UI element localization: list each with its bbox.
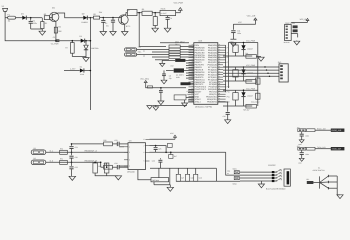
ground	[83, 58, 89, 62]
diode D6	[243, 67, 245, 69]
ground	[100, 32, 107, 36]
resistor R36	[168, 143, 173, 147]
svg-text:OPA2340: OPA2340	[127, 171, 135, 174]
diode D5	[243, 43, 245, 46]
isp arrows	[275, 170, 281, 172]
svg-text:78L05: 78L05	[160, 7, 165, 10]
ground symbol GND	[230, 38, 236, 40]
svg-text:2: 2	[129, 151, 130, 154]
wire	[152, 51, 169, 53]
wire row3 bottom	[223, 105, 252, 107]
wire	[46, 161, 101, 163]
connector X4 input plug	[31, 160, 46, 165]
crystal Y2 block	[174, 68, 184, 72]
ground	[152, 28, 159, 32]
net tag 2	[234, 177, 239, 180]
resistor R37 small	[169, 155, 173, 159]
svg-text:3: 3	[129, 159, 130, 162]
crystal Y3 block	[181, 82, 191, 85]
wire	[100, 17, 119, 19]
svg-text:C22: C22	[75, 166, 78, 169]
svg-text:47: 47	[191, 78, 193, 80]
power flag	[174, 137, 176, 139]
resistor R1	[41, 22, 44, 29]
svg-text:A1: A1	[143, 49, 145, 52]
wire ch2 jog	[100, 162, 102, 167]
svg-text:62: 62	[219, 49, 221, 51]
svg-text:C5: C5	[53, 36, 55, 39]
resistor R30	[60, 150, 68, 154]
ground	[161, 80, 167, 84]
wire row3 top	[223, 89, 258, 91]
svg-text:PD3(INT3): PD3(INT3)	[207, 100, 217, 103]
diode D4 row	[64, 70, 80, 72]
svg-text:56: 56	[219, 64, 221, 66]
svg-text:D4: D4	[80, 65, 82, 68]
wire pin7	[150, 146, 167, 153]
svg-text:59: 59	[219, 56, 221, 58]
svg-text:52: 52	[219, 73, 221, 75]
svg-text:X3: X3	[33, 147, 35, 150]
ground	[299, 158, 304, 161]
resistor R25	[246, 104, 257, 108]
capacitor C26	[159, 158, 161, 159]
resistor R21	[246, 55, 257, 59]
capacitor	[301, 150, 303, 152]
svg-text:R1: R1	[45, 22, 47, 25]
wire zener gnd	[72, 53, 86, 56]
node VIN vertical	[90, 17, 92, 19]
svg-text:C25: C25	[158, 148, 161, 151]
wire	[84, 70, 90, 72]
resistor R7 vertical	[70, 43, 74, 54]
svg-text:A2: A2	[143, 54, 145, 57]
ground	[122, 32, 129, 36]
svg-text:R7: R7	[65, 47, 67, 50]
wire	[315, 148, 331, 150]
ground	[149, 104, 151, 106]
ground	[41, 29, 43, 31]
wire emitter down	[55, 21, 57, 40]
svg-text:58: 58	[219, 59, 221, 61]
zener diode Z1	[84, 45, 88, 50]
wire	[16, 17, 23, 19]
svg-text:R3: R3	[93, 13, 95, 16]
svg-text:R2: R2	[44, 13, 46, 16]
diode D3 on rail	[81, 39, 85, 43]
capacitor C5 on rail	[55, 39, 59, 41]
svg-text:SV2/ISP: SV2/ISP	[268, 164, 276, 167]
svg-text:SV1: SV1	[278, 61, 282, 64]
svg-text:R30: R30	[60, 148, 63, 151]
svg-text:C10: C10	[223, 115, 226, 118]
wire	[152, 56, 169, 58]
crystal Y1 block	[175, 59, 185, 62]
vertical tie	[257, 43, 259, 107]
wire	[87, 17, 90, 19]
svg-text:41: 41	[191, 64, 193, 66]
wire mcu bottom rail	[153, 104, 187, 106]
ground	[299, 140, 304, 143]
wire row2 bottom	[223, 80, 252, 82]
svg-text:C4: C4	[170, 17, 172, 20]
wire	[336, 176, 338, 195]
fuse F1	[8, 16, 16, 19]
svg-text:R32: R32	[103, 139, 106, 142]
resistor R24	[233, 93, 238, 100]
svg-text:63: 63	[219, 47, 221, 49]
svg-text:64: 64	[219, 44, 221, 46]
resistor R6 vertical	[153, 17, 157, 26]
resistor R34 vertical	[93, 163, 98, 173]
svg-text:C26: C26	[152, 160, 155, 163]
capacitor C3 electrolytic	[112, 17, 114, 19]
connector J1 power jack	[3, 8, 8, 11]
svg-text:43: 43	[191, 69, 193, 71]
wire	[137, 49, 169, 51]
wire collector	[58, 13, 84, 18]
resistor R32	[104, 142, 113, 146]
svg-text:42: 42	[219, 98, 221, 100]
connector X3 input plug	[31, 150, 46, 155]
capacitor C10 under mcu	[226, 112, 230, 114]
svg-text:1N4007: 1N4007	[247, 94, 253, 97]
svg-text:55: 55	[191, 98, 193, 100]
bus wires right of mcu	[225, 45, 227, 92]
wire gnd rail	[95, 173, 118, 176]
capacitor columns C27 C28 C29	[177, 168, 179, 174]
ground	[184, 100, 186, 103]
svg-text:MEGA64-A TQFP64: MEGA64-A TQFP64	[195, 106, 212, 109]
svg-text:C21: C21	[75, 146, 78, 149]
svg-text:49: 49	[191, 83, 193, 85]
inductor L1	[147, 86, 152, 88]
svg-text:51: 51	[191, 88, 193, 90]
resistor R5	[142, 11, 152, 15]
svg-text:R10: R10	[175, 43, 178, 46]
svg-text:40: 40	[191, 61, 193, 63]
svg-text:53: 53	[219, 71, 221, 73]
resistor R23	[246, 80, 257, 84]
svg-text:TXD0_JAR: TXD0_JAR	[317, 146, 326, 149]
svg-text:SCL: SCL	[138, 46, 141, 49]
svg-text:6: 6	[143, 151, 144, 154]
svg-text:X4: X4	[33, 157, 35, 160]
net tag X	[307, 181, 314, 184]
resistor	[307, 147, 315, 150]
resistor R35 vertical	[104, 163, 109, 173]
ground	[164, 28, 171, 32]
resistor R2 series	[44, 16, 49, 20]
wire out to isp	[226, 152, 278, 175]
svg-text:C23: C23	[114, 139, 117, 142]
svg-text:R5: R5	[142, 8, 144, 11]
svg-text:57: 57	[219, 61, 221, 63]
resistor R4 on emitter line	[54, 27, 57, 33]
ground	[337, 195, 343, 199]
svg-text:36: 36	[191, 51, 193, 53]
resistor R31	[60, 160, 68, 164]
capacitor C24	[116, 165, 118, 169]
wire	[90, 17, 93, 19]
svg-text:VCC_JAR: VCC_JAR	[247, 15, 256, 18]
svg-text:VCC_MCU: VCC_MCU	[140, 78, 150, 81]
svg-text:U2A: U2A	[198, 40, 203, 43]
svg-text:53: 53	[191, 93, 193, 95]
feedback wire ch2	[101, 166, 104, 168]
wire	[160, 42, 189, 44]
svg-text:C1: C1	[33, 20, 35, 23]
resistor R33	[104, 165, 113, 169]
resistor R27 vertical	[256, 93, 260, 99]
wire rail to isp	[216, 180, 240, 182]
wire bottom rail to isp	[176, 180, 216, 182]
wire	[291, 21, 307, 23]
svg-text:48: 48	[191, 81, 193, 83]
svg-text:VCC_MCU: VCC_MCU	[251, 101, 260, 104]
ground small	[161, 60, 163, 63]
connector plug P4	[125, 53, 137, 56]
wire	[146, 85, 186, 88]
svg-text:XT2: XT2	[170, 64, 173, 67]
capacitor C4	[166, 16, 170, 18]
svg-text:44: 44	[219, 93, 221, 95]
wire gnd pin	[167, 16, 169, 18]
wire	[233, 22, 255, 24]
regulator U1 box	[127, 10, 137, 16]
svg-text:33: 33	[191, 44, 193, 46]
wire	[152, 12, 160, 14]
capacitor C23	[116, 142, 118, 146]
svg-text:46: 46	[191, 76, 193, 78]
wire	[137, 12, 142, 14]
net tag 1	[234, 171, 239, 174]
capacitor C1	[30, 18, 32, 21]
svg-text:1N4004: 1N4004	[81, 21, 87, 24]
mcu U2 left pins	[189, 44, 194, 46]
svg-text:39: 39	[191, 59, 193, 61]
connector SV1	[279, 64, 288, 82]
crystal X5 box	[151, 178, 169, 182]
wire	[315, 129, 331, 131]
capacitor C20 between rails	[71, 152, 73, 154]
feedback wire ch1	[72, 143, 104, 145]
isp pads	[272, 171, 275, 173]
svg-text:44: 44	[191, 71, 193, 73]
svg-text:51: 51	[219, 76, 221, 78]
wire	[291, 33, 298, 35]
svg-text:4: 4	[129, 165, 130, 168]
isp connector body SV2	[284, 169, 290, 186]
wire	[5, 11, 90, 40]
resonator box with caps	[174, 95, 186, 100]
svg-text:R34: R34	[98, 165, 101, 168]
wire	[218, 102, 228, 112]
wire	[112, 143, 117, 145]
capacitor C21 above	[71, 144, 73, 146]
gnd rail	[150, 167, 216, 169]
svg-text:7: 7	[143, 144, 144, 147]
ground	[260, 181, 262, 184]
svg-text:45: 45	[191, 73, 193, 75]
opamp U3 body	[128, 143, 145, 170]
svg-text:1N4733A: 1N4733A	[91, 47, 99, 50]
wire	[176, 12, 181, 14]
svg-text:34: 34	[191, 47, 193, 49]
svg-text:48: 48	[219, 83, 221, 85]
svg-text:P21: P21	[227, 96, 230, 99]
svg-text:60: 60	[219, 54, 221, 56]
capacitor	[301, 132, 303, 134]
svg-text:55: 55	[219, 66, 221, 68]
ground	[257, 55, 259, 57]
svg-text:R25 4k7: R25 4k7	[243, 109, 249, 112]
transistor Q2	[119, 15, 129, 25]
svg-text:D3: D3	[79, 35, 81, 38]
resistor R20	[233, 45, 238, 52]
wire u3 pin wires	[119, 146, 124, 148]
svg-text:B772: B772	[126, 25, 130, 28]
ground	[110, 32, 116, 36]
svg-text:RXD0_JAR: RXD0_JAR	[332, 129, 342, 132]
svg-text:RXD0_JAR: RXD0_JAR	[317, 127, 326, 130]
capacitor C9	[160, 87, 162, 89]
isp wire 1	[240, 171, 277, 173]
svg-text:45: 45	[219, 91, 221, 93]
svg-text:CODE SWITCH: CODE SWITCH	[313, 169, 326, 172]
svg-text:READOUT_A: READOUT_A	[85, 149, 98, 152]
wire	[112, 166, 117, 168]
svg-text:R4: R4	[58, 25, 60, 28]
resistor	[307, 129, 315, 132]
wire	[31, 28, 43, 30]
jumper links	[293, 25, 298, 28]
svg-text:22p: 22p	[169, 77, 172, 80]
svg-text:61: 61	[219, 51, 221, 53]
node vertical to MCU area	[138, 12, 140, 14]
capacitor C22 below	[71, 162, 73, 166]
resistor R3	[94, 16, 100, 19]
connector plug P3	[125, 48, 137, 51]
diode D2	[83, 16, 87, 20]
svg-text:VC_PWR: VC_PWR	[51, 43, 59, 46]
mcu U2 body	[194, 43, 218, 105]
resistor network R10-R14 column	[169, 45, 180, 48]
svg-text:42: 42	[191, 66, 193, 68]
wire	[26, 17, 42, 19]
switch pole	[319, 176, 321, 188]
svg-text:47: 47	[219, 86, 221, 88]
svg-text:50: 50	[219, 78, 221, 80]
ground	[115, 176, 122, 180]
svg-text:VCC_PWR: VCC_PWR	[174, 2, 184, 5]
regulator U1 78L05 box	[160, 10, 176, 15]
svg-text:470u: 470u	[33, 22, 37, 25]
ground	[296, 40, 298, 43]
capacitor C8	[163, 70, 165, 73]
svg-text:VCC_PWR: VCC_PWR	[246, 87, 256, 90]
svg-text:50: 50	[191, 86, 193, 88]
transistor Q1	[50, 12, 59, 21]
wire row2 top	[223, 66, 258, 68]
svg-text:P19: P19	[227, 91, 230, 94]
wire	[5, 17, 8, 19]
capacitor C2	[103, 17, 105, 19]
svg-text:C20: C20	[75, 156, 78, 159]
diode D1	[22, 16, 26, 20]
wire	[137, 54, 169, 56]
wire	[313, 182, 319, 184]
svg-text:8: 8	[143, 138, 144, 141]
ground	[155, 105, 157, 106]
svg-text:MLW10: MLW10	[284, 41, 290, 44]
wire	[155, 59, 169, 61]
svg-text:C8: C8	[169, 74, 171, 77]
svg-text:5: 5	[143, 160, 144, 163]
wire u3 bottom pin	[138, 170, 151, 180]
svg-text:C24: C24	[114, 162, 117, 165]
resistor R26 vertical	[256, 78, 260, 84]
power flag VCC	[179, 10, 181, 13]
svg-text:43: 43	[219, 96, 221, 98]
capacitor C11	[232, 24, 234, 30]
power flag	[307, 20, 309, 22]
wire bundle to SV1	[223, 66, 279, 68]
wire row1 bottom	[223, 55, 252, 57]
svg-text:54: 54	[219, 69, 221, 71]
wire row1 top	[228, 42, 257, 44]
svg-text:VCC_PWR: VCC_PWR	[246, 40, 256, 43]
diode D7	[243, 90, 245, 92]
svg-text:2k2: 2k2	[58, 30, 61, 33]
svg-text:1: 1	[129, 146, 130, 149]
svg-text:54: 54	[191, 96, 193, 98]
svg-text:IN OUT: IN OUT	[161, 12, 167, 15]
wire vcc pin	[150, 138, 176, 140]
svg-text:56: 56	[191, 100, 193, 102]
svg-text:S1: S1	[318, 166, 320, 169]
svg-text:38: 38	[191, 56, 193, 58]
svg-text:R31: R31	[60, 158, 63, 161]
svg-text:37: 37	[191, 54, 193, 56]
wire rows into mcu lower left	[188, 89, 194, 91]
switch contacts	[328, 175, 337, 177]
svg-text:52: 52	[191, 91, 193, 93]
ground	[69, 176, 76, 180]
capacitor C25	[155, 145, 157, 147]
svg-text:VCC_IO: VCC_IO	[300, 18, 307, 21]
svg-text:1N4007: 1N4007	[247, 47, 253, 50]
svg-text:BOOTLOADER ENABLE: BOOTLOADER ENABLE	[266, 187, 286, 190]
ground	[158, 101, 164, 105]
resistor R22	[233, 70, 238, 77]
wire	[46, 151, 128, 153]
svg-text:35: 35	[191, 49, 193, 51]
wire	[154, 184, 170, 186]
svg-text:100n: 100n	[237, 32, 241, 35]
ground	[167, 187, 173, 191]
svg-text:A_KEY: A_KEY	[70, 68, 76, 71]
svg-text:4148: 4148	[80, 73, 84, 76]
ground	[225, 120, 231, 124]
svg-text:TXD0_JAR: TXD0_JAR	[332, 147, 342, 150]
svg-text:XTAL1: XTAL1	[195, 100, 202, 103]
svg-text:46: 46	[219, 88, 221, 90]
wire vcc branch to mcu	[139, 46, 166, 48]
wire pin6 out	[150, 151, 226, 153]
isp wire 3	[240, 177, 277, 179]
svg-text:49: 49	[219, 81, 221, 83]
